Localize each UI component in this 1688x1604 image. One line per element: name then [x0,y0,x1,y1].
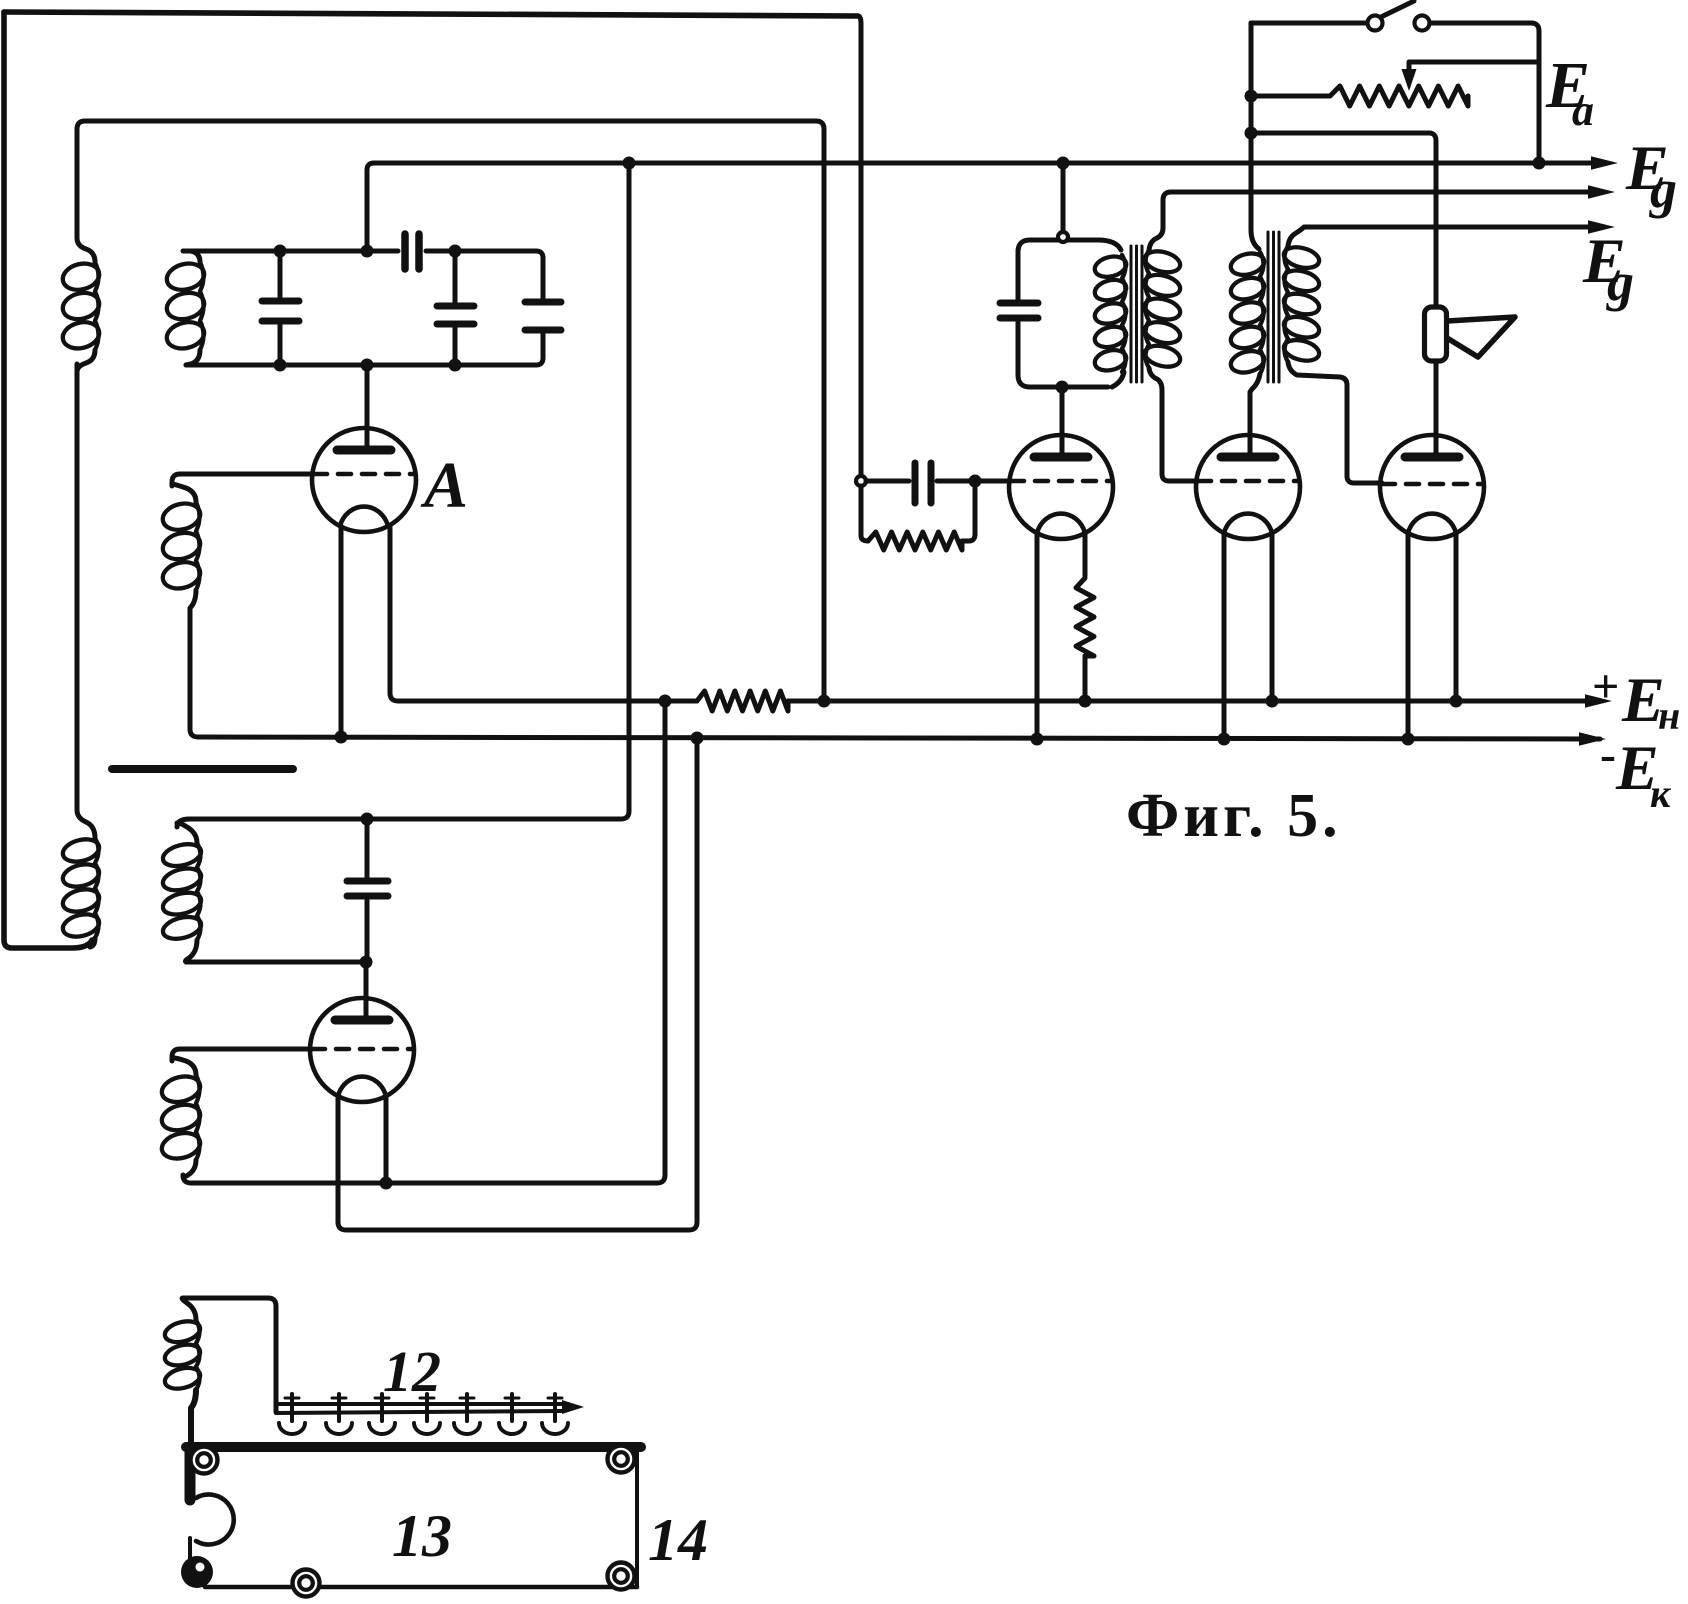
svg-text:A: A [420,449,468,522]
svg-text:a: a [1572,86,1594,135]
svg-text:+: + [1592,660,1619,713]
svg-text:12: 12 [383,1339,441,1404]
svg-text:к: к [1650,771,1672,816]
svg-text:g: g [1649,159,1677,219]
svg-text:13: 13 [392,1503,452,1569]
svg-text:-: - [1600,728,1616,781]
svg-text:14: 14 [648,1507,708,1573]
svg-text:Фиг. 5.: Фиг. 5. [1126,782,1342,850]
svg-text:н: н [1658,693,1680,738]
svg-text:g: g [1606,252,1634,312]
